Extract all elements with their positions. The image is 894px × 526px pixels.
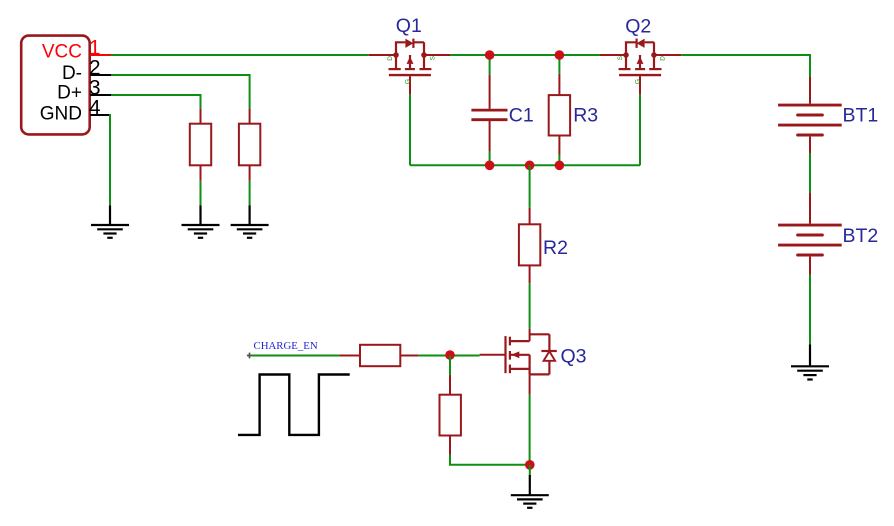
svg-text:CHARGE_EN: CHARGE_EN [254,340,318,352]
wire D+ net [111,95,201,109]
svg-text:BT2: BT2 [843,225,879,247]
transistor Q2 [600,39,681,95]
svg-text:R3: R3 [573,105,598,127]
svg-text:D+: D+ [57,83,82,104]
junction dot top rail C1 [485,50,495,60]
wire GND pin down [110,115,111,205]
pin 4 stub [90,114,111,116]
junction dot source node [525,460,535,470]
junction dot mid rail R2 [525,161,535,171]
svg-text:C1: C1 [509,105,534,127]
pin 3 stub [90,94,111,96]
square wave symbol [238,375,350,435]
svg-text:Q3: Q3 [561,345,587,367]
wire resistor to gate node [419,355,480,357]
svg-text:R2: R2 [543,237,568,259]
svg-text:D: D [387,56,394,61]
svg-text:S: S [617,55,624,60]
resistor RD- (unlabeled) [239,109,260,181]
battery BT1 [778,77,842,153]
resistor R3 [549,55,570,165]
wire Q1 to C1/R3 rail [450,54,600,56]
wire VCC to Q1 [111,54,369,56]
wire BT1 to BT2 [809,153,811,193]
pin 1 stub [90,54,111,56]
capacitor C1 [471,55,507,165]
junction dot gate node [445,350,455,360]
connector J1 box [21,36,90,135]
wire Q3 source down [529,395,531,465]
svg-text:D-: D- [62,63,82,84]
junction dot top rail R3 [555,50,565,60]
ground under Q3 [511,465,549,508]
ground under GND pin [91,205,129,238]
ground under RD- [231,205,269,238]
junction dot mid rail C1 [485,161,495,171]
pin 2 stub [90,74,111,76]
svg-text:Q1: Q1 [396,15,422,37]
transistor Q1 [369,39,450,95]
wire BT2 to ground [809,275,811,345]
wire Q2 to battery [681,55,810,77]
battery BT2 [778,193,842,275]
wire RD- to ground [249,181,251,206]
ground under BT2 [791,344,829,379]
svg-text:BT1: BT1 [843,104,879,126]
ground under RD+ [182,205,220,238]
transistor Q3 [480,329,557,395]
wire D- net [111,75,250,109]
wire pulldown to source node [450,455,530,465]
pulldown resistor (unlabeled) [440,375,461,455]
svg-text:G: G [635,79,642,84]
svg-text:D: D [660,56,667,61]
svg-text:G: G [405,79,412,84]
svg-text:Q2: Q2 [625,15,651,37]
wire CHARGE_EN to series resistor [251,355,339,357]
svg-text:VCC: VCC [42,41,82,62]
series resistor (gate, horizontal) [339,345,418,366]
resistor RD+ (unlabeled) [190,109,211,181]
resistor R2 [519,165,540,328]
no-connect cross [247,353,252,359]
svg-text:GND: GND [40,103,82,124]
junction dot mid rail R3 [555,161,565,171]
gate rail Q1-Q2 [409,94,411,165]
svg-text:4: 4 [89,97,101,120]
svg-text:S: S [430,55,437,60]
wire gate node down [449,356,451,375]
wire RD+ to ground [200,181,202,206]
